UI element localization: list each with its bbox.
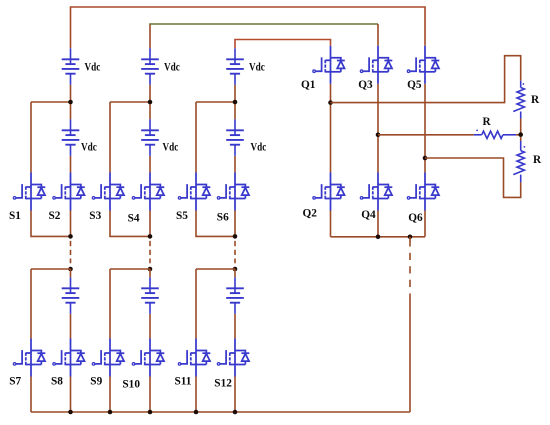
wire tap to S7 drain [31,268,71,270]
node phase C upper module output junction [233,234,238,239]
svg-text:Q3: Q3 [358,79,373,91]
transistor Q6 [407,173,439,211]
svg-text:S12: S12 [214,377,232,389]
wire S12 source down [234,377,236,413]
wire bridge bottom rail [331,236,426,238]
wire Q3 source to Q4 drain [377,84,379,173]
wire top rail 2 horizontal (phase B batteries to Q3) [149,23,378,25]
transistor S4 [132,173,164,211]
svg-text:S2: S2 [49,210,61,222]
battery (phase C lower cell source) [226,277,244,314]
svg-text:Q4: Q4 [361,209,376,221]
wire phase B dashed continuation [149,241,151,263]
svg-text:S9: S9 [90,376,102,388]
wire tap to S11 drain [196,268,235,270]
transistor S9 [92,339,124,377]
node phase C lower module input junction [233,267,238,272]
svg-text:R: R [531,94,540,106]
battery Vdc (phase B upper cell, top source) [141,48,159,85]
battery Vdc (phase A upper cell, top source) [62,48,80,85]
wire battery to S2 drain [70,156,72,173]
transistor S10 [132,339,164,377]
wire phase B battery column mid [149,85,151,119]
svg-text:Vdc: Vdc [85,62,101,74]
wire battery to S6 drain [234,156,236,173]
svg-text:Vdc: Vdc [164,62,180,74]
wire S5 drain riser [195,102,197,173]
transistor Q4 [360,173,392,211]
wire top rail 3 (phase C batteries to Q1 drain) [235,40,331,49]
wire return riser solid [409,294,411,413]
wire S7 drain riser [30,269,32,339]
svg-text:S5: S5 [176,210,188,222]
node bottom rail S9 junction [108,410,113,415]
wire battery to S10 drain [149,314,151,339]
wire phase A battery column mid [70,85,72,119]
wire top rail 1 (phase A batteries to Q5 drain) [71,7,426,48]
wire phase B tap to S3 drain [110,101,150,103]
node bottom rail S12 junction [233,410,238,415]
resistor R (load, bottom) [513,135,525,183]
wire return riser dashed [409,253,411,288]
wire S3 drain riser [109,102,111,173]
svg-text:S3: S3 [89,210,101,222]
node phase leg 1 output [328,100,333,105]
svg-text:Vdc: Vdc [249,62,265,74]
battery Vdc (phase B upper cell, second source) [141,119,159,156]
node phase A lower module input junction [68,267,73,272]
wire S9 source down [109,377,111,413]
node bottom rail S10 junction [148,410,153,415]
wire Q1 source to Q2 drain [330,84,332,173]
node bridge bottom Q4 junction [376,235,381,240]
resistor R (load, top) [513,81,524,134]
transistor S8 [53,339,85,377]
wire phase C battery column mid [234,85,236,119]
node phase A upper module output junction [68,234,73,239]
wire S1 drain riser [30,102,32,173]
transistor S12 [217,339,249,377]
wire tap to S9 drain [110,268,150,270]
transistor S6 [217,173,249,211]
transistor Q3 [360,46,392,84]
wire battery lower top lead [234,269,236,277]
wire battery to S8 drain [70,314,72,339]
svg-text:S4: S4 [128,212,140,224]
wire phase 3 output to load resistor bottom [425,158,521,197]
transistor S5 [178,173,210,211]
wire S4 source down [149,211,151,237]
node phase B upper module output junction [148,234,153,239]
wire phase A dashed continuation [70,241,72,263]
wire phase C tap to S5 drain [196,101,235,103]
svg-text:S7: S7 [9,376,21,388]
node phase B lower module input junction [148,267,153,272]
wire S11 drain riser [195,269,197,339]
node phase B battery midpoint junction [148,100,153,105]
wire Q4 source down [377,211,379,237]
resistor R (load, middle horizontal) [474,130,520,139]
transistor Q1 [313,46,345,84]
battery Vdc (phase C upper cell, second source) [226,119,244,156]
node phase leg 2 output [376,133,381,138]
svg-text:Q2: Q2 [303,208,318,220]
transistor Q5 [407,46,439,84]
node load neutral star point [518,132,523,137]
svg-text:S8: S8 [51,376,63,388]
wire Q6 source down [424,211,426,237]
wire phase A tap to S1 drain [31,101,71,103]
wire S2 source down [70,211,72,237]
wire battery to S12 drain [234,314,236,339]
svg-text:Q6: Q6 [408,212,423,224]
node bottom rail S11 junction [194,410,199,415]
wire S11 source down [195,377,197,413]
battery (phase A lower cell source) [62,277,80,314]
wire phase 2 output to load resistor [378,134,474,136]
svg-text:R: R [483,116,492,128]
wire battery lower top lead [149,269,151,277]
battery Vdc (phase C upper cell, top source) [226,48,244,85]
svg-text:Q5: Q5 [407,79,422,91]
node phase A battery midpoint junction [68,100,73,105]
svg-text:S1: S1 [9,210,21,222]
svg-text:R: R [533,154,542,166]
wire Q5 source to Q6 drain [424,84,426,173]
node phase leg 3 output [423,156,428,161]
transistor Q2 [313,173,345,211]
node phase C battery midpoint junction [233,100,238,105]
wire S7 source down [30,377,32,413]
battery Vdc (phase A upper cell, second source) [62,119,80,156]
wire battery to S4 drain [149,156,151,173]
wire top rail 2 right riser (to Q3 drain) [377,24,379,46]
svg-text:Q1: Q1 [301,79,316,91]
transistor S2 [53,173,85,211]
wire S8 source down [70,377,72,413]
node bridge bottom return junction [408,235,413,240]
wire S6 source down [234,211,236,237]
svg-text:S10: S10 [122,378,140,390]
node bottom rail S8 junction [68,410,73,415]
svg-text:Vdc: Vdc [81,142,97,154]
battery (phase B lower cell source) [141,277,159,314]
wire battery lower top lead [70,269,72,277]
wire return riser solid stub [409,237,411,247]
wire S1 source to join [31,211,71,237]
wire top rail 2 left riser (phase B) [149,24,151,48]
wire Q2 source down [330,211,332,237]
svg-text:Vdc: Vdc [251,142,267,154]
wire phase C dashed continuation [234,241,236,263]
transistor S3 [92,173,124,211]
wire S5 source to join [196,211,235,237]
wire bottom common rail [31,411,410,413]
svg-text:S11: S11 [175,376,192,388]
svg-text:S6: S6 [217,211,229,223]
transistor S1 [13,173,45,211]
wire S10 source down [149,377,151,413]
wire S9 drain riser [109,269,111,339]
wire phase 1 output to load resistor top [331,56,521,103]
transistor S7 [13,339,45,377]
transistor S11 [178,339,210,377]
svg-text:Vdc: Vdc [163,142,179,154]
wire S3 source to join [110,211,150,237]
